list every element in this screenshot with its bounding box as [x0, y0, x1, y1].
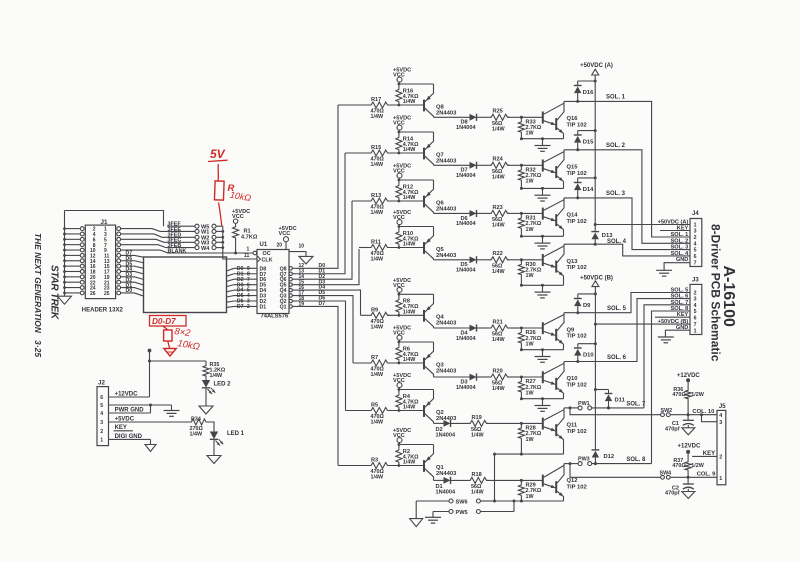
wire +50VDC (B) to J3 — [594, 323, 690, 326]
wire J1 pin 21 net D2 — [121, 277, 144, 285]
jumper W1 — [195, 229, 224, 235]
net SOL. 5 — [564, 293, 690, 313]
wire J5 pin 3 jog — [700, 413, 717, 422]
wire J1 pin 9 to BLANK — [121, 250, 168, 253]
wire collector output channel 2 — [434, 164, 470, 166]
wire base channel 4 — [521, 259, 542, 261]
capacitor C1 470pf — [665, 415, 694, 433]
svg-text:J5: J5 — [719, 404, 726, 410]
annotation red 5V — [208, 147, 228, 162]
wire input row channel 4 — [359, 247, 424, 249]
wire input row channel 7 — [346, 410, 425, 412]
svg-text:D1: D1 — [260, 304, 267, 310]
svg-text:D11: D11 — [615, 398, 626, 404]
svg-text:1N4004: 1N4004 — [456, 173, 476, 179]
svg-text:5: 5 — [694, 248, 697, 254]
wire VCC rail channel 2 — [398, 131, 434, 134]
transistor Q12 TIP 102 — [543, 464, 587, 501]
wire U1 output Q6 pin 14 net D2 — [289, 201, 352, 281]
svg-text:8-Driver PCB Schematic: 8-Driver PCB Schematic — [709, 224, 723, 362]
wire J1 pin 25 net D0 — [121, 288, 144, 296]
svg-text:6: 6 — [694, 254, 697, 260]
wire collector output channel 6 — [434, 376, 470, 378]
svg-text:TIP 102: TIP 102 — [567, 122, 587, 128]
title logo STAR TREK — [49, 265, 60, 320]
node 3FEC — [167, 238, 195, 244]
wire J1 pin 1 to 3FEE — [121, 229, 167, 232]
wire J1 pin 7 to 3FEB — [121, 245, 167, 248]
svg-text:1/4W: 1/4W — [371, 114, 384, 120]
wire J1 pin 23 net D1 — [121, 283, 144, 291]
svg-text:SOL. 5: SOL. 5 — [607, 306, 627, 312]
svg-text:2N4403: 2N4403 — [436, 368, 457, 374]
wire J1 pin 15 net D5 — [121, 261, 144, 268]
connector J3 — [658, 278, 702, 335]
resistor R4 4.7K — [396, 390, 419, 412]
ground — [535, 284, 551, 298]
wire DIGI GND J2 pin 1 — [109, 434, 151, 445]
wire SW6 to ground — [415, 501, 417, 519]
svg-text:KEY: KEY — [677, 312, 689, 318]
wire U1 output Q4 pin 16 net D4 — [289, 285, 361, 316]
ground — [535, 187, 551, 201]
svg-text:J3: J3 — [692, 278, 699, 284]
resistor R6 4.7K — [396, 342, 419, 364]
wire J1 pin 13 net D6 — [121, 256, 144, 263]
transistor Q9 TIP 102 — [543, 313, 587, 350]
J1 ground bus wire — [63, 211, 80, 297]
IC U1 74ALS576 — [253, 242, 289, 319]
LED 1 — [206, 422, 245, 456]
ground — [410, 519, 423, 527]
transistor Q2 2N4403 — [424, 390, 457, 424]
svg-text:R7: R7 — [371, 355, 378, 361]
annotation red D0-D7 pulldown note — [150, 316, 201, 357]
resistor R16 4.7K — [396, 84, 419, 106]
wire base channel 6 — [521, 376, 542, 378]
LED 2 — [202, 380, 231, 406]
svg-text:1W: 1W — [526, 341, 535, 347]
svg-text:TIP 102: TIP 102 — [567, 171, 587, 177]
jumper SW4 — [660, 471, 718, 480]
svg-text:2: 2 — [100, 429, 103, 435]
svg-text:HEADER 13X2: HEADER 13X2 — [82, 307, 124, 313]
power +5VDC VCC (U1 pin 20) — [277, 226, 297, 250]
transistor Q4 2N4403 — [424, 294, 457, 328]
svg-text:1/4W: 1/4W — [403, 405, 416, 411]
wire U1 input D7 pin 2 — [234, 304, 257, 310]
svg-text:1N4004: 1N4004 — [436, 433, 456, 439]
svg-text:1/4W: 1/4W — [471, 433, 484, 439]
wire emitter ground channel 1 — [520, 137, 564, 140]
svg-text:1/4W: 1/4W — [492, 127, 505, 133]
bus D0-D7 (J1 to U1) — [144, 257, 227, 313]
wire input row channel 6 — [353, 362, 424, 364]
ground — [535, 397, 551, 411]
wire base channel 7 — [521, 422, 542, 424]
wire base channel 8 — [521, 479, 542, 481]
wire SOL. 7 tap to SW2 — [569, 406, 661, 414]
diode D14 flyback — [574, 176, 597, 199]
svg-text:1/4W: 1/4W — [371, 325, 384, 331]
svg-text:+50VDC (B): +50VDC (B) — [580, 275, 613, 281]
svg-text:6: 6 — [100, 395, 103, 401]
ground — [145, 445, 156, 452]
transistor Q16 TIP 102 — [543, 101, 587, 138]
resistor R33 2.7K — [518, 116, 541, 139]
wire U1 input D3 pin 6 — [234, 282, 257, 288]
svg-text:TIP 102: TIP 102 — [567, 219, 587, 225]
svg-text:1/4W: 1/4W — [492, 337, 505, 343]
svg-text:1/4W: 1/4W — [471, 490, 484, 496]
net SOL. 8 — [564, 311, 690, 466]
ground U1 pin 10 — [289, 244, 313, 264]
diode D2 1N4004 — [436, 420, 469, 439]
wire input row channel 1 — [338, 104, 424, 106]
svg-text:1W: 1W — [526, 131, 535, 137]
svg-text:1/4W: 1/4W — [190, 431, 203, 437]
svg-text:1N4004: 1N4004 — [456, 385, 476, 391]
svg-text:2N4403: 2N4403 — [436, 471, 457, 477]
svg-text:KEY: KEY — [677, 226, 689, 232]
wire VCC rail channel 8 — [398, 443, 434, 446]
node BLANK — [167, 248, 253, 254]
svg-text:2N4403: 2N4403 — [436, 321, 457, 327]
svg-text:1/4W: 1/4W — [403, 242, 416, 248]
svg-text:1/4W: 1/4W — [371, 210, 384, 216]
svg-text:D10: D10 — [583, 352, 594, 358]
resistor R22 56 — [490, 251, 522, 275]
net SOL. 3 — [564, 191, 690, 250]
wire U1 input D4 pin 5 — [234, 288, 257, 294]
svg-text:74ALS576: 74ALS576 — [261, 314, 289, 320]
ground — [682, 428, 695, 435]
svg-text:Q15: Q15 — [567, 164, 579, 170]
svg-text:SOL. 6: SOL. 6 — [671, 294, 689, 300]
svg-text:1W: 1W — [526, 437, 535, 443]
svg-text:J4: J4 — [692, 211, 699, 217]
wire emitter ground channel 6 — [520, 397, 564, 400]
svg-text:SOL. 3: SOL. 3 — [606, 191, 626, 197]
svg-text:SW6: SW6 — [456, 500, 468, 506]
svg-text:5: 5 — [100, 403, 103, 409]
connector J4 — [658, 211, 702, 267]
resistor R24 56 — [490, 157, 522, 181]
svg-text:Q14: Q14 — [567, 213, 579, 219]
svg-text:R9: R9 — [371, 308, 378, 314]
wire collector output channel 4 — [434, 259, 470, 261]
resistor R30 2.7K — [518, 258, 541, 285]
connector J5 — [717, 404, 726, 485]
resistor R29 2.7K — [518, 479, 541, 501]
power +5VDC VCC channel 8 — [393, 428, 411, 444]
title text A-16100 — [720, 266, 737, 327]
svg-text:1W: 1W — [526, 390, 535, 396]
svg-text:SOL. 7: SOL. 7 — [626, 402, 646, 408]
wire bus to U1 input D7 — [227, 305, 235, 308]
svg-text:470Ω: 470Ω — [672, 392, 686, 398]
svg-text:Q10: Q10 — [567, 376, 578, 382]
svg-text:Q9: Q9 — [567, 327, 576, 333]
transistor Q3 2N4403 — [424, 342, 457, 377]
svg-text:1W: 1W — [526, 273, 535, 279]
svg-text:1/4W: 1/4W — [403, 99, 416, 105]
svg-text:LED 1: LED 1 — [227, 431, 245, 437]
wire U1 input D5 pin 4 — [234, 293, 257, 299]
svg-text:D16: D16 — [583, 90, 594, 96]
svg-text:CLK: CLK — [262, 258, 273, 264]
svg-text:8×2: 8×2 — [174, 326, 192, 339]
svg-text:2N4403: 2N4403 — [436, 416, 457, 422]
node 3FEE — [167, 227, 195, 233]
transistor Q15 TIP 102 — [543, 150, 587, 189]
power +5VDC VCC channel 7 — [393, 373, 411, 389]
ground — [58, 296, 72, 304]
wire U1 output Q3 pin 17 net D5 — [289, 290, 353, 363]
svg-text:4: 4 — [694, 303, 697, 309]
svg-text:D12: D12 — [604, 454, 615, 460]
connector J2 — [97, 380, 109, 446]
jumper W5 — [195, 224, 223, 230]
wire J1 pin 19 net D3 — [121, 272, 144, 279]
svg-text:1/4W: 1/4W — [403, 310, 416, 316]
svg-text:1W: 1W — [526, 494, 535, 500]
resistor R9 470 — [370, 308, 390, 331]
transistor Q6 2N4403 — [424, 180, 457, 213]
svg-text:U1: U1 — [260, 242, 268, 248]
svg-text:+50VDC (A): +50VDC (A) — [580, 63, 613, 69]
svg-text:Q11: Q11 — [567, 423, 578, 429]
wire U1 output Q8 pin 12 net D0 — [289, 105, 338, 270]
jumper SW6 — [416, 499, 494, 506]
resistor R32 2.7K — [518, 164, 541, 189]
svg-text:Q1: Q1 — [280, 304, 287, 310]
annotation red resistor R 10k — [214, 164, 252, 226]
ground — [425, 517, 441, 523]
diode D12 flyback — [592, 450, 615, 465]
svg-text:J2: J2 — [98, 380, 105, 387]
resistor R25 56 — [490, 109, 522, 133]
svg-text:PW1: PW1 — [578, 401, 590, 407]
transistor Q13 TIP 102 — [543, 244, 587, 285]
svg-text:VCC: VCC — [279, 231, 291, 237]
svg-text:PW5: PW5 — [456, 510, 468, 516]
svg-text:LED 2: LED 2 — [214, 381, 232, 387]
svg-text:3: 3 — [694, 297, 697, 303]
wire KEY J4 — [660, 230, 690, 232]
wire emitter ground channel 5 — [520, 348, 564, 351]
svg-text:1/4W: 1/4W — [403, 147, 416, 153]
svg-text:1/4W: 1/4W — [492, 269, 505, 275]
svg-text:SOL. 1: SOL. 1 — [671, 232, 689, 238]
wire +50VDC (A) to J4 — [594, 223, 690, 226]
transistor Q7 2N4403 — [424, 132, 457, 165]
diode D4 1N4004 — [456, 324, 490, 341]
wire W jumper bus to U1 CLK — [223, 226, 257, 259]
svg-text:D7: D7 — [237, 304, 244, 310]
svg-text:1/4W: 1/4W — [403, 357, 416, 363]
capacitor C2 470pf — [665, 477, 694, 496]
wire PW5 to ground — [432, 512, 434, 518]
ground — [207, 456, 221, 464]
net SOL. 2 — [564, 143, 690, 243]
wire J2 pin 5 / PWR GND — [109, 404, 172, 414]
net SOL. 1 — [564, 95, 690, 237]
power +5VDC VCC channel 4 — [393, 210, 411, 226]
svg-text:1/4W: 1/4W — [371, 162, 384, 168]
resistor R8 4.7K — [396, 294, 419, 316]
wire GND J4 — [664, 263, 690, 271]
svg-text:2: 2 — [694, 235, 697, 241]
resistor R31 2.7K — [518, 212, 541, 236]
svg-text:6: 6 — [694, 315, 697, 321]
wire U1 output Q1 pin 19 net D7 — [289, 301, 338, 465]
resistor R14 4.7K — [396, 132, 419, 154]
wire input row channel 3 — [352, 200, 424, 202]
resistor R21 56 — [490, 319, 522, 343]
svg-text:1: 1 — [100, 438, 103, 444]
wire VCC rail channel 4 — [398, 225, 434, 228]
svg-text:1/4W: 1/4W — [403, 460, 416, 466]
wire collector output channel 1 — [434, 116, 470, 118]
svg-text:OC: OC — [263, 251, 271, 257]
wire collector output channel 7 — [434, 422, 444, 424]
svg-text:Q13: Q13 — [567, 259, 579, 265]
net SOL. 4 — [564, 239, 690, 256]
svg-text:3: 3 — [100, 420, 103, 426]
wire KEY J5 pin 2 — [692, 451, 717, 457]
svg-text:4.7KΩ: 4.7KΩ — [241, 234, 258, 240]
resistor R11 470 — [370, 240, 390, 263]
svg-text:D13: D13 — [602, 233, 613, 239]
svg-text:D0: D0 — [126, 288, 133, 294]
power +5VDC VCC channel 3 — [393, 164, 411, 180]
svg-text:SOL. 3: SOL. 3 — [671, 245, 689, 251]
resistor R3 470 — [370, 458, 390, 481]
transistor Q10 TIP 102 — [543, 362, 587, 399]
svg-text:R25: R25 — [493, 109, 503, 115]
ground — [658, 337, 674, 343]
resistor R35 1.2K — [203, 361, 226, 380]
resistor R28 2.7K — [518, 422, 541, 454]
wire J1 pin 5 to 3FEC — [121, 239, 167, 242]
svg-text:1N4004: 1N4004 — [456, 125, 476, 131]
wire U1 output Q7 pin 13 net D1 — [289, 153, 345, 275]
resistor R18 56 — [469, 472, 522, 496]
wire VCC rail channel 1 — [398, 83, 434, 86]
wire KEY J3 — [655, 316, 690, 318]
svg-text:COL. 9: COL. 9 — [697, 471, 716, 477]
svg-text:D9: D9 — [583, 303, 591, 309]
resistor R26 2.7K — [518, 327, 541, 350]
svg-text:SOL. 5: SOL. 5 — [671, 288, 689, 294]
wire J1 pin 3 to 3FED — [121, 234, 167, 237]
svg-text:1N4004: 1N4004 — [456, 336, 476, 342]
jumper W3 — [195, 240, 224, 246]
resistor R2 4.7K — [396, 445, 419, 467]
wire KEY J2 pin 2 — [114, 425, 134, 431]
svg-text:SOL. 1: SOL. 1 — [606, 95, 626, 101]
transistor Q5 2N4403 — [424, 227, 457, 260]
wire emitter ground channel 3 — [520, 235, 564, 238]
resistor R5 470 — [370, 403, 390, 426]
resistor R15 470 — [370, 145, 390, 168]
svg-text:5: 5 — [694, 309, 697, 315]
svg-text:1/4W: 1/4W — [492, 386, 505, 392]
svg-text:470pf: 470pf — [665, 427, 680, 433]
wire VCC rail channel 3 — [398, 179, 434, 182]
svg-text:2N4403: 2N4403 — [436, 206, 457, 212]
power +5VDC VCC channel 2 — [393, 116, 411, 132]
svg-text:1/4W: 1/4W — [371, 372, 384, 378]
diode D1 1N4004 — [436, 477, 469, 496]
power +12VDC (R36) — [677, 373, 701, 382]
svg-text:Q12: Q12 — [567, 478, 578, 484]
svg-text:R18: R18 — [472, 472, 482, 478]
wire base channel 3 — [521, 212, 542, 214]
ground — [535, 235, 551, 249]
resistor R27 2.7K — [518, 376, 541, 399]
resistor R19 56 — [469, 415, 522, 439]
power +12VDC (R37) — [678, 443, 702, 454]
svg-text:5V: 5V — [210, 147, 226, 161]
resistor R12 4.7K — [396, 180, 419, 202]
ground — [164, 411, 180, 417]
power +5VDC VCC channel 5 — [393, 278, 411, 294]
svg-text:1/2W: 1/2W — [691, 392, 704, 398]
svg-text:R22: R22 — [493, 251, 503, 257]
resistor R7 470 — [370, 355, 390, 378]
wire collector output channel 8 — [434, 479, 444, 481]
ground — [656, 270, 672, 276]
wire top loop to 3FEF — [65, 211, 164, 227]
svg-text:2: 2 — [719, 455, 722, 461]
wire U1 input D0 pin 9 — [234, 266, 257, 272]
wire U1 input D1 pin 8 — [234, 271, 257, 277]
transistor Q8 2N4403 — [424, 84, 457, 117]
svg-text:4: 4 — [100, 411, 103, 417]
power +50VDC (A) — [580, 63, 613, 75]
wire J1 pin 11 net D7 — [121, 251, 144, 258]
wire collector output channel 5 — [434, 327, 470, 329]
svg-text:STAR TREK: STAR TREK — [49, 265, 60, 320]
resistor R37 470 1/2W — [672, 452, 704, 477]
svg-text:2N4403: 2N4403 — [436, 110, 457, 116]
svg-text:1/4W: 1/4W — [210, 373, 223, 379]
resistor R10 4.7K — [396, 227, 419, 249]
wire ground tie channel 7 to channel 8 — [494, 454, 496, 501]
svg-text:R21: R21 — [493, 319, 503, 325]
wire U1 output Q2 pin 18 net D6 — [289, 296, 346, 411]
power +5VDC VCC channel 1 — [393, 68, 411, 84]
svg-text:2: 2 — [694, 291, 697, 297]
svg-text:20: 20 — [277, 242, 283, 248]
svg-text:TIP 102: TIP 102 — [567, 265, 587, 271]
wire bus to U1 input D4 — [227, 290, 235, 292]
wire bus to U1 input D0 — [227, 268, 235, 271]
svg-text:+12VDC: +12VDC — [678, 443, 702, 449]
ground — [682, 492, 695, 499]
svg-text:PW3: PW3 — [578, 457, 590, 463]
jumper SW2 — [661, 408, 718, 417]
wire SOL. 8 tap to SW4 — [569, 462, 661, 477]
svg-text:2: 2 — [247, 304, 250, 310]
net COL. 10 — [692, 409, 714, 415]
jumper W4 — [195, 246, 224, 252]
svg-text:+50VDC (B): +50VDC (B) — [658, 319, 689, 325]
svg-text:3: 3 — [694, 229, 697, 235]
jumper PW5 — [433, 501, 514, 516]
